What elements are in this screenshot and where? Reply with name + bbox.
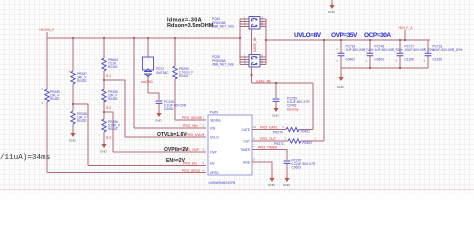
svg-text:GND: GND <box>328 10 336 14</box>
svg-text:OUT: OUT <box>243 140 250 144</box>
wire MOSFET right rail <box>265 19 267 65</box>
svg-text:R0402: R0402 <box>77 79 87 83</box>
svg-text:OVP=35V: OVP=35V <box>331 32 358 39</box>
wire output bus <box>266 39 430 41</box>
junction OUT riser bus <box>323 39 325 41</box>
wire pkg2 pin stubs right <box>260 57 266 65</box>
wire R1 tap to UVLO row <box>104 80 125 137</box>
wire PRO_#PGD row <box>47 172 206 174</box>
junction cap370 <box>369 39 371 41</box>
svg-text:EN: EN <box>210 162 215 166</box>
svg-text:VIN: VIN <box>210 127 216 131</box>
svg-text:GND: GND <box>268 183 276 187</box>
value label PQ40 <box>212 17 234 29</box>
svg-text:R.3: R.3 <box>106 136 111 140</box>
svg-text:C0402: C0402 <box>164 107 174 111</box>
svg-text:C0603: C0603 <box>292 166 302 170</box>
wire PRO_OVP row <box>113 151 206 153</box>
junction bus x73 <box>72 37 74 39</box>
junction bus x134 <box>133 37 135 39</box>
svg-text:PRO_TIMER: PRO_TIMER <box>258 146 278 150</box>
TVS diode PD72 <box>143 57 170 77</box>
wire EN divider column <box>72 38 74 131</box>
svg-text:EN>=2V: EN>=2V <box>166 158 186 164</box>
node +HOVN_F input flag <box>39 28 54 38</box>
wire cap bottom bus <box>341 67 428 69</box>
svg-text:R.1: R.1 <box>106 74 111 78</box>
svg-text:+DN_F_A: +DN_F_A <box>398 26 413 30</box>
svg-text:R0402: R0402 <box>303 141 313 145</box>
wire GND pin row <box>252 162 272 176</box>
svg-text:R0402: R0402 <box>50 97 60 101</box>
junction gate node <box>251 74 253 76</box>
wire gate bus <box>252 82 314 84</box>
wire EN tap to EN row <box>73 104 88 166</box>
transistor PQ30 dual MOSFET <box>244 53 264 67</box>
junction bus x104 <box>103 37 105 39</box>
resistor PR290 <box>173 66 194 79</box>
resistor PR664 <box>102 58 118 71</box>
svg-text:SENSE: SENSE <box>210 119 221 123</box>
wire SENSE column <box>174 38 176 120</box>
ground below PR288 <box>69 131 77 143</box>
capacitor PC746 <box>366 45 403 69</box>
capacitor PC718 <box>424 45 463 69</box>
wire PRO_EN row <box>88 165 206 167</box>
resistor PR287 <box>69 69 87 84</box>
svg-text:OVP: OVP <box>210 151 217 155</box>
value label PQ30 <box>212 55 234 67</box>
svg-text:OTVLb=1.6V: OTVLb=1.6V <box>157 132 187 138</box>
ground below PR286 <box>100 142 108 154</box>
wire PGD pullup column <box>46 38 48 173</box>
junction capbus x370 <box>369 67 371 69</box>
svg-text:1UF-50V-X5R_10%: 1UF-50V-X5R_10% <box>375 48 403 52</box>
junction capbus x400 <box>399 67 401 69</box>
wire cap drop x400 <box>399 40 401 53</box>
resistor PR271 <box>274 137 317 147</box>
ground below PC287 <box>283 176 291 187</box>
svg-text:R0402: R0402 <box>179 74 189 78</box>
svg-text:Rdson=3.5mOHM: Rdson=3.5mOHM <box>167 23 214 29</box>
svg-text:GATE: GATE <box>242 128 250 132</box>
svg-text:PU09: PU09 <box>210 111 218 115</box>
svg-text:PRO_SENSE: PRO_SENSE <box>182 116 203 120</box>
svg-text:C1206: C1206 <box>433 58 443 62</box>
capacitor PC208 <box>156 100 187 111</box>
wire OUT riser to output bus <box>323 40 325 141</box>
junction R2 tap <box>103 111 105 113</box>
svg-text:emGND: emGND <box>141 80 154 84</box>
resistor PR285 <box>102 89 118 102</box>
svg-text:+HOVN_F: +HOVN_F <box>39 28 54 32</box>
svg-text:/11uA)=34ms: /11uA)=34ms <box>0 154 50 162</box>
wire cap drop x341 <box>340 40 342 53</box>
ground capbank <box>337 75 345 89</box>
wire gate riser <box>312 83 314 130</box>
capacitor PC287 <box>284 159 316 177</box>
svg-text:OCP=30A: OCP=30A <box>364 32 391 39</box>
svg-text:C0402: C0402 <box>346 58 356 62</box>
wire cap drop x428 <box>427 40 429 53</box>
svg-text:OVPtb=2V: OVPtb=2V <box>164 147 189 153</box>
svg-text:PRO_OUT: PRO_OUT <box>260 137 276 141</box>
svg-text:10UF-50V-X5R_20%: 10UF-50V-X5R_20% <box>405 48 435 52</box>
junction right rail bus <box>265 39 267 41</box>
svg-text:TIMER: TIMER <box>240 148 251 152</box>
wire cap drop x370 <box>369 40 371 53</box>
ground below PC208 <box>155 111 163 123</box>
wire MOSFET left rail <box>239 19 241 65</box>
wire TVS to PC208 <box>148 93 159 100</box>
svg-text:R0402: R0402 <box>108 65 118 69</box>
svg-text:UVLO: UVLO <box>210 136 219 140</box>
svg-text:Dummy: Dummy <box>287 108 299 112</box>
junction cap400 <box>399 39 401 41</box>
resistor PR288 <box>71 111 87 124</box>
wire ladder column top <box>103 38 105 142</box>
wire PRO_UVLO row <box>125 136 206 138</box>
svg-text:GND: GND <box>100 150 108 154</box>
wire gate down from pkg2 <box>251 67 253 83</box>
wire pkg2 pin stubs left <box>240 57 249 65</box>
svg-text:GATE_#B: GATE_#B <box>253 37 257 52</box>
svg-text:10UF-50V-X5R_20%: 10UF-50V-X5R_20% <box>433 48 463 52</box>
svg-text:C0603: C0603 <box>375 58 385 62</box>
svg-text:LM5069MM/NOPB: LM5069MM/NOPB <box>209 181 236 185</box>
wire PRO_GATE row <box>252 129 313 131</box>
junction bus x148 <box>147 37 149 39</box>
wire PRO_SENSE row <box>175 119 206 121</box>
op-amp U1 hot-swap controller PU09 LM5069 <box>208 111 252 186</box>
svg-text:GND: GND <box>243 161 251 165</box>
svg-text:10: 10 <box>253 125 257 129</box>
ground top right <box>328 0 336 14</box>
capacitor PC259 dummy <box>273 97 311 112</box>
wire pkg1 pin stubs right <box>260 19 266 27</box>
resistor PR270 <box>273 125 315 135</box>
wire dummy cap drop <box>275 83 277 98</box>
junction left rail bus <box>239 37 241 39</box>
wire input bus +HOVN_F <box>47 37 240 39</box>
svg-text:GND: GND <box>69 139 77 143</box>
capacitor PC717 <box>396 45 435 69</box>
svg-text:PR270: PR270 <box>273 131 283 135</box>
svg-text:GND: GND <box>283 183 291 187</box>
svg-text:PRO_#PGD: PRO_#PGD <box>182 169 201 173</box>
wire VIN riser <box>133 38 135 128</box>
wire TVS column <box>147 38 149 93</box>
junction R1 tap <box>103 79 105 81</box>
svg-text:SMT54C: SMT54C <box>156 71 169 75</box>
wire pkg1 pin stubs left <box>240 19 249 27</box>
svg-text:R0402: R0402 <box>108 127 118 131</box>
junction dummy cap tap <box>275 82 277 84</box>
transistor PQ40 dual MOSFET <box>244 15 264 29</box>
junction output flag <box>404 39 406 41</box>
wire PRO_TIMER row <box>252 150 287 161</box>
svg-text:R0402: R0402 <box>108 97 118 101</box>
resistor PR289 <box>42 87 60 105</box>
svg-text:1UF-50V-X5R_10%: 1UF-50V-X5R_10% <box>346 48 374 52</box>
svg-text:PRO_VIN: PRO_VIN <box>183 124 198 128</box>
ground below PC259 <box>272 106 280 118</box>
svg-text:GND: GND <box>155 119 163 123</box>
wire capbank gnd drop <box>340 68 342 75</box>
svg-text:R0402: R0402 <box>77 119 87 123</box>
wire bottom sheet line <box>0 189 474 191</box>
wire gate link between packages <box>251 29 253 55</box>
svg-text:#PGD: #PGD <box>210 171 219 175</box>
ground IC GND pin <box>268 176 276 187</box>
svg-text:R.2: R.2 <box>106 106 111 110</box>
wire R2 tap to OVP row <box>104 112 113 152</box>
node +DN_F_A output flag <box>398 26 413 40</box>
junction cap341 <box>340 39 342 41</box>
wire PRO_OUT row <box>252 140 324 142</box>
wire PRO_VIN row <box>134 127 206 129</box>
junction bus x175 <box>174 37 176 39</box>
svg-text:GND: GND <box>337 85 345 89</box>
svg-text:dNB_NET_0xB: dNB_NET_0xB <box>212 25 234 29</box>
svg-text:PRO_GATE: PRO_GATE <box>260 126 279 130</box>
svg-text:dNB_NET_0xB: dNB_NET_0xB <box>212 63 234 67</box>
svg-text:PRO_EN: PRO_EN <box>183 162 197 166</box>
junction EN tap <box>72 103 74 105</box>
capacitor PC716 <box>337 45 374 69</box>
svg-text:GND: GND <box>272 114 280 118</box>
svg-text:UVLO=8V: UVLO=8V <box>294 32 322 39</box>
svg-text:R0402: R0402 <box>301 130 311 134</box>
svg-text:C1206: C1206 <box>405 58 415 62</box>
resistor PR286 <box>102 119 120 132</box>
